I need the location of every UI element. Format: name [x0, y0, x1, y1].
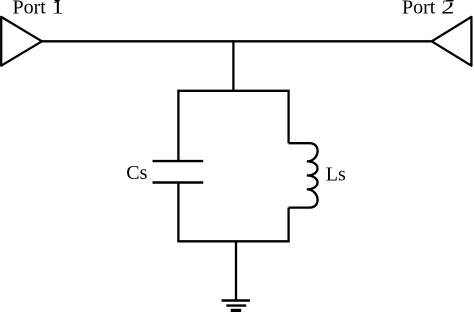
svg-text:1: 1: [52, 0, 64, 19]
svg-text:Cs: Cs: [126, 162, 147, 184]
svg-text:Ls: Ls: [326, 163, 346, 185]
svg-text:Port: Port: [402, 0, 436, 19]
svg-text:Port: Port: [13, 0, 47, 19]
svg-text:2: 2: [441, 0, 454, 19]
